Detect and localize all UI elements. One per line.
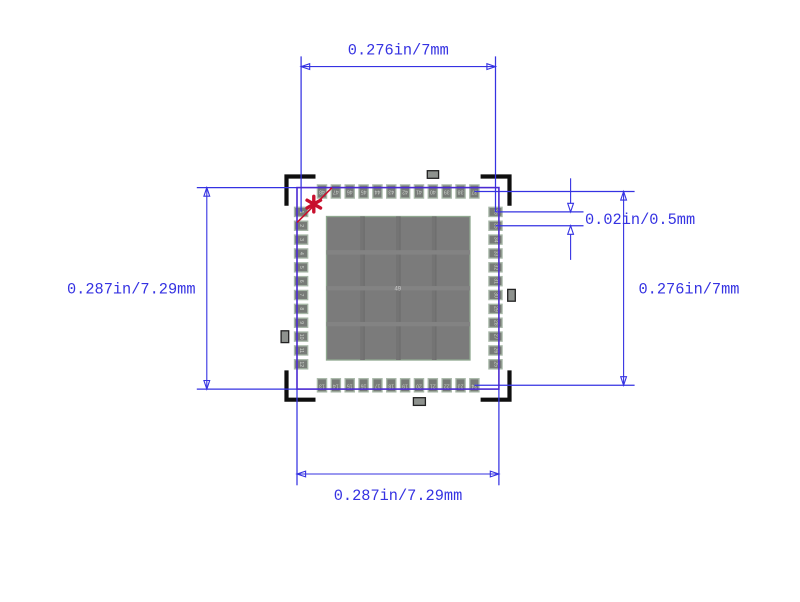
- pad 7: [295, 290, 308, 299]
- pad 1: [295, 207, 308, 216]
- pad 47: [331, 185, 340, 198]
- left dimension arrow top: [204, 188, 210, 197]
- corner bracket bottom-right: [481, 370, 510, 399]
- svg-text:5: 5: [298, 266, 304, 269]
- svg-text:29: 29: [493, 306, 499, 312]
- right dimension line 7mm: [623, 192, 625, 386]
- right dimension extension line bottom: [474, 384, 634, 386]
- svg-text:39: 39: [444, 189, 450, 195]
- svg-text:11: 11: [298, 348, 304, 353]
- pad 17: [373, 379, 382, 392]
- svg-text:44: 44: [374, 189, 380, 195]
- top dimension arrow right: [487, 64, 496, 70]
- top dimension arrow left: [301, 64, 310, 70]
- pad 35: [489, 221, 502, 230]
- svg-text:45: 45: [361, 189, 367, 195]
- svg-text:20: 20: [416, 382, 422, 388]
- svg-text:28: 28: [493, 320, 499, 326]
- pad 13: [317, 379, 326, 392]
- pad 46: [345, 185, 354, 198]
- svg-text:21: 21: [430, 382, 436, 388]
- svg-text:13: 13: [319, 382, 325, 388]
- pad 38: [456, 185, 465, 198]
- svg-text:31: 31: [493, 278, 499, 284]
- pitch dimension lower arrow stem: [570, 234, 572, 260]
- pad 12: [295, 360, 308, 369]
- pad 33: [489, 249, 502, 258]
- svg-text:32: 32: [493, 264, 499, 270]
- pad 22: [442, 379, 451, 392]
- pad 31: [489, 277, 502, 286]
- bottom dimension arrow right: [490, 471, 499, 477]
- bottom dimension extension line right: [498, 389, 500, 485]
- marker pad top: [427, 171, 438, 179]
- svg-text:3: 3: [298, 238, 304, 241]
- top dimension extension line left: [300, 56, 302, 212]
- bottom dimension arrow left: [297, 471, 306, 477]
- svg-text:4: 4: [298, 252, 304, 255]
- pad 5: [295, 263, 308, 272]
- pad 44: [373, 185, 382, 198]
- pad 20: [414, 379, 423, 392]
- pad 42: [401, 185, 410, 198]
- pad 39: [442, 185, 451, 198]
- svg-text:0.276in/7mm: 0.276in/7mm: [639, 281, 740, 299]
- marker pad left: [281, 331, 289, 343]
- pin 1 chamfer line: [297, 188, 332, 223]
- svg-text:10: 10: [298, 334, 304, 340]
- corner bracket bottom-left: [287, 370, 316, 399]
- svg-text:9: 9: [298, 321, 304, 324]
- pad 6: [295, 277, 308, 286]
- svg-text:43: 43: [388, 189, 394, 195]
- pad 28: [489, 318, 502, 327]
- right dimension arrow bottom: [621, 377, 627, 386]
- svg-text:0.287in/7.29mm: 0.287in/7.29mm: [67, 281, 196, 299]
- left dimension line 7.29mm: [206, 188, 208, 390]
- pad 8: [295, 304, 308, 313]
- svg-text:7: 7: [298, 294, 304, 297]
- svg-text:6: 6: [298, 280, 304, 283]
- svg-text:18: 18: [388, 382, 394, 388]
- pad 15: [345, 379, 354, 392]
- pad 34: [489, 235, 502, 244]
- pitch dimension extension line upper: [496, 211, 584, 213]
- svg-text:40: 40: [430, 189, 436, 195]
- pad 27: [489, 332, 502, 341]
- pad 41: [414, 185, 423, 198]
- pad 29: [489, 304, 502, 313]
- top dimension extension line right: [495, 56, 497, 212]
- svg-text:25: 25: [493, 361, 499, 367]
- pad 10: [295, 332, 308, 341]
- corner bracket top-right: [481, 177, 510, 206]
- svg-text:42: 42: [402, 189, 408, 195]
- svg-text:0.287in/7.29mm: 0.287in/7.29mm: [334, 487, 463, 505]
- pad 40: [428, 185, 437, 198]
- pad 14: [331, 379, 340, 392]
- pad 43: [387, 185, 396, 198]
- svg-text:2: 2: [298, 224, 304, 227]
- pad 45: [359, 185, 368, 198]
- pad 16: [359, 379, 368, 392]
- svg-text:0.276in/7mm: 0.276in/7mm: [348, 42, 449, 60]
- pitch dimension lower arrow: [568, 226, 574, 235]
- pad 30: [489, 290, 502, 299]
- svg-text:8: 8: [298, 307, 304, 310]
- pad 24: [470, 379, 479, 392]
- pad 25: [489, 360, 502, 369]
- pad 18: [387, 379, 396, 392]
- marker pad right: [508, 289, 516, 301]
- right dimension extension line top: [474, 191, 634, 193]
- svg-text:33: 33: [493, 251, 499, 257]
- pin 1 asterisk: [307, 196, 321, 212]
- land pattern extent rectangle: [297, 188, 499, 390]
- svg-text:34: 34: [493, 237, 499, 243]
- svg-text:23: 23: [458, 382, 464, 388]
- left dimension arrow bottom: [204, 381, 210, 390]
- svg-text:48: 48: [319, 189, 325, 195]
- svg-text:47: 47: [333, 189, 339, 195]
- left dimension extension line top: [197, 187, 297, 189]
- pad 26: [489, 346, 502, 355]
- bottom dimension line 7.29mm: [297, 473, 499, 475]
- pad 21: [428, 379, 437, 392]
- svg-text:12: 12: [298, 361, 304, 367]
- top dimension line 7mm: [301, 66, 495, 68]
- svg-text:30: 30: [493, 292, 499, 298]
- svg-text:49: 49: [394, 286, 401, 292]
- svg-text:38: 38: [458, 189, 464, 195]
- svg-text:41: 41: [416, 189, 422, 195]
- right dimension arrow top: [621, 192, 627, 201]
- svg-text:27: 27: [493, 334, 499, 340]
- pad 36: [489, 207, 502, 216]
- pad 11: [295, 346, 308, 355]
- pad 2: [295, 221, 308, 230]
- pitch dimension upper arrow stem: [570, 178, 572, 203]
- pitch dimension upper arrow: [568, 203, 574, 212]
- svg-text:46: 46: [347, 189, 353, 195]
- bottom dimension extension line left: [296, 389, 298, 485]
- pad 32: [489, 263, 502, 272]
- svg-text:19: 19: [402, 382, 408, 388]
- pitch dimension extension line lower: [496, 225, 584, 227]
- pad 4: [295, 249, 308, 258]
- svg-text:15: 15: [347, 382, 353, 388]
- svg-text:22: 22: [444, 382, 450, 388]
- svg-text:0.02in/0.5mm: 0.02in/0.5mm: [585, 211, 695, 229]
- pad 3: [295, 235, 308, 244]
- pad 48: [317, 185, 326, 198]
- pad 9: [295, 318, 308, 327]
- svg-text:14: 14: [333, 382, 339, 388]
- svg-text:26: 26: [493, 348, 499, 354]
- pad 19: [401, 379, 410, 392]
- pad 37: [470, 185, 479, 198]
- corner bracket top-left: [287, 177, 316, 206]
- pad 23: [456, 379, 465, 392]
- exposed pad 49: [327, 217, 471, 361]
- svg-text:16: 16: [361, 382, 367, 388]
- left dimension extension line bottom: [197, 388, 297, 390]
- svg-text:17: 17: [374, 382, 380, 388]
- marker pad bottom: [413, 398, 425, 406]
